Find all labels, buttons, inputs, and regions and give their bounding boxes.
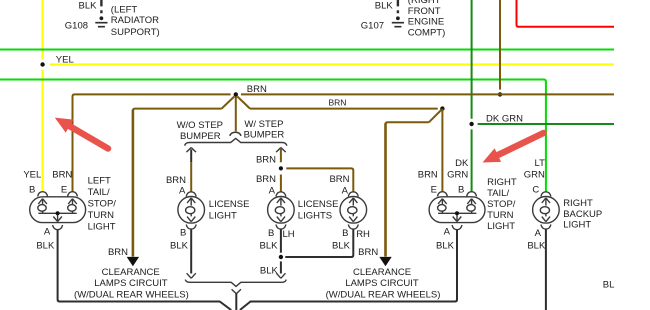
lamp license light 1: [178, 192, 205, 229]
svg-text:B: B: [268, 228, 274, 239]
svg-text:BRN: BRN: [52, 169, 72, 180]
svg-text:A: A: [269, 185, 276, 196]
label LEFT TAIL/STOP/TURN LIGHT: [88, 176, 117, 233]
svg-text:GRN: GRN: [447, 169, 468, 180]
svg-text:STOP/: STOP/: [487, 199, 516, 210]
svg-text:B: B: [458, 184, 464, 195]
svg-text:YEL: YEL: [23, 169, 41, 180]
lamp right backup light: [533, 192, 560, 229]
svg-text:CLEARANCE: CLEARANCE: [102, 267, 160, 278]
svg-text:BLK: BLK: [260, 240, 279, 251]
svg-text:LICENSE: LICENSE: [209, 199, 250, 210]
svg-text:A: A: [44, 226, 51, 237]
svg-text:BRN: BRN: [166, 175, 186, 186]
svg-text:B: B: [180, 227, 186, 238]
svg-text:BRN: BRN: [256, 174, 276, 185]
arrow left clearance: [127, 257, 139, 266]
label (LEFT RADIATOR SUPPORT): [111, 4, 160, 38]
svg-text:B: B: [342, 228, 348, 239]
svg-text:BRN: BRN: [108, 247, 128, 258]
lamp license light RH: [340, 192, 367, 229]
node YEL junction: [40, 62, 44, 66]
wire BLK backup down: [545, 229, 547, 310]
svg-text:TAIL/: TAIL/: [487, 188, 509, 199]
wire YEL horizontal: [50, 63, 614, 65]
connector arrow down (license 1): [187, 273, 196, 278]
svg-text:LAMPS CIRCUIT: LAMPS CIRCUIT: [345, 278, 419, 289]
svg-text:LEFT: LEFT: [88, 176, 111, 187]
wire BLK LH license down: [280, 229, 282, 253]
wire GRN horizontal upper: [0, 49, 614, 51]
node DK GRN junction: [469, 122, 473, 126]
wire merge down: [235, 293, 237, 310]
label CLEARANCE LAMPS CIRCUIT (right): [326, 267, 441, 301]
wire fan vertical drop: [235, 96, 237, 131]
svg-text:FRONT: FRONT: [408, 6, 441, 17]
wire BRN main bus (left tail E pin up and across): [73, 94, 615, 192]
label (RIGHT FRONT ENGINE COMPT): [408, 0, 445, 38]
svg-text:(W/DUAL REAR WHEELS): (W/DUAL REAR WHEELS): [74, 289, 189, 300]
svg-text:ENGINE: ENGINE: [408, 17, 444, 28]
svg-text:BLK: BLK: [436, 240, 455, 251]
lamp right tail/stop/turn: [429, 192, 485, 230]
svg-text:LT: LT: [535, 158, 546, 169]
wire BRN right tail E feed: [441, 109, 443, 193]
wire BRN vertical from top: [499, 0, 501, 90]
svg-text:BLK: BLK: [36, 240, 55, 251]
annotation red arrow 1: [55, 118, 108, 149]
node BLK license junction: [279, 255, 283, 259]
svg-text:BLK: BLK: [170, 240, 189, 251]
svg-text:GRN: GRN: [524, 169, 545, 180]
wire BRN to LH license: [280, 175, 282, 193]
node left tail filament junction: [56, 211, 60, 215]
wire DK GRN horizontal: [478, 123, 614, 125]
svg-text:BLK: BLK: [527, 240, 546, 251]
svg-text:A: A: [342, 185, 349, 196]
symbol merge underbrace: [185, 280, 286, 287]
wire RED corner top right: [517, 0, 615, 27]
svg-text:LAMPS CIRCUIT: LAMPS CIRCUIT: [94, 278, 168, 289]
wire fan diagonal left: [222, 96, 235, 108]
wire fan diagonal right: [237, 96, 250, 108]
label CLEARANCE LAMPS CIRCUIT (left): [74, 267, 189, 301]
svg-text:YEL: YEL: [56, 54, 74, 65]
svg-text:DK: DK: [455, 158, 469, 169]
svg-text:BRN: BRN: [418, 169, 438, 180]
svg-text:LIGHT: LIGHT: [88, 221, 116, 232]
annotation red arrow 2: [483, 133, 544, 163]
wire YEL vertical (left tail B feed): [41, 0, 43, 192]
label LICENSE LIGHT: [209, 199, 250, 221]
wire BRN left clearance feeder: [132, 110, 135, 257]
lamp license light LH: [268, 192, 295, 229]
label W/O STEP BUMPER: [177, 120, 223, 142]
svg-text:BLK: BLK: [375, 0, 394, 11]
svg-text:BUMPER: BUMPER: [244, 130, 285, 141]
wire BRN right clearance feeder: [384, 123, 387, 256]
connector arrow (W/ branch): [276, 148, 286, 153]
arrow right clearance: [379, 257, 391, 266]
wire BLK RH license down and across: [285, 229, 353, 257]
wire BLK upper segment (W/O branch): [190, 149, 192, 162]
svg-text:TURN: TURN: [487, 210, 514, 221]
connector arrow (W/O branch): [186, 148, 196, 153]
svg-text:LIGHT: LIGHT: [487, 221, 515, 232]
wire BRN second bus right segment: [250, 108, 438, 110]
wire BRN to license light 1: [190, 162, 192, 192]
svg-text:BLK: BLK: [332, 240, 351, 251]
wire BRN second bus left segment: [133, 109, 222, 111]
wire BRN branch to RH license: [286, 168, 353, 192]
wire BLK right tail to merge: [240, 230, 457, 310]
svg-text:RH: RH: [356, 229, 370, 240]
connector arrow down (LH/RH license): [276, 273, 285, 278]
svg-text:BRN: BRN: [329, 174, 349, 185]
svg-text:LIGHT: LIGHT: [563, 219, 591, 230]
svg-text:CLEARANCE: CLEARANCE: [353, 267, 411, 278]
svg-text:BACKUP: BACKUP: [563, 209, 602, 220]
label DK GRN (right tail B): [447, 158, 469, 181]
label LT GRN (backup C): [524, 158, 545, 181]
lamp left tail/stop/turn: [30, 192, 86, 230]
node right tail filament junction: [455, 211, 459, 215]
label RIGHT TAIL/STOP/TURN LIGHT: [487, 177, 517, 232]
svg-text:BRN: BRN: [329, 98, 347, 108]
connector Y: [232, 289, 241, 294]
svg-text:SUPPORT): SUPPORT): [111, 27, 160, 38]
svg-text:TURN: TURN: [88, 210, 115, 221]
svg-text:G108: G108: [65, 20, 88, 31]
svg-text:BL: BL: [603, 280, 615, 291]
svg-text:BLK: BLK: [260, 266, 279, 277]
wire BRN right clearance branch: [386, 110, 442, 124]
svg-text:BRN: BRN: [256, 154, 276, 165]
svg-text:G107: G107: [361, 20, 384, 31]
label LICENSE LIGHTS: [298, 199, 339, 221]
svg-text:E: E: [431, 184, 437, 195]
svg-text:LH: LH: [283, 229, 295, 240]
wire G108 BLK dashed lead: [100, 0, 102, 13]
svg-text:BRN: BRN: [247, 84, 267, 95]
svg-text:A: A: [535, 228, 542, 239]
node BRN license junction: [279, 166, 283, 170]
wire LT GRN horizontal + vertical to backup light: [0, 80, 546, 193]
svg-text:LIGHTS: LIGHTS: [298, 210, 332, 221]
node BRN top junction: [498, 92, 502, 96]
svg-text:(LEFT: (LEFT: [111, 4, 138, 15]
svg-text:LIGHT: LIGHT: [209, 210, 237, 221]
node BRN fan junction: [234, 92, 238, 96]
svg-text:E: E: [61, 184, 67, 195]
svg-text:BLK: BLK: [79, 0, 98, 11]
svg-text:A: A: [444, 226, 451, 237]
svg-text:STOP/: STOP/: [88, 199, 117, 210]
ground G107: [392, 16, 404, 26]
wire BRN (W/ branch upper): [280, 149, 282, 163]
svg-text:RIGHT: RIGHT: [563, 198, 593, 209]
svg-text:TAIL/: TAIL/: [88, 187, 110, 198]
svg-text:B: B: [29, 184, 35, 195]
wire BLK left tail to merge: [58, 230, 232, 310]
symbol small option brace: [230, 132, 241, 136]
svg-text:W/O STEP: W/O STEP: [177, 120, 223, 131]
wire BLK junction down: [280, 261, 282, 273]
wire DK GRN vertical (right tail B feed): [471, 0, 473, 192]
svg-text:(W/DUAL REAR WHEELS): (W/DUAL REAR WHEELS): [326, 289, 441, 300]
svg-text:DK GRN: DK GRN: [486, 113, 523, 124]
svg-text:LICENSE: LICENSE: [298, 199, 339, 210]
svg-text:A: A: [179, 185, 186, 196]
label W/ STEP BUMPER: [244, 119, 285, 141]
svg-text:RIGHT: RIGHT: [487, 177, 517, 188]
svg-text:C: C: [532, 184, 539, 195]
svg-text:BRN: BRN: [358, 247, 378, 258]
svg-text:BUMPER: BUMPER: [180, 131, 221, 142]
ground G108: [95, 16, 107, 26]
label RIGHT BACKUP LIGHT: [563, 198, 602, 230]
svg-text:COMPT): COMPT): [408, 27, 445, 38]
node BRN right junction: [440, 106, 444, 110]
wire BLK license 1 down: [190, 229, 192, 273]
svg-text:RADIATOR: RADIATOR: [111, 15, 159, 26]
symbol option split brace: [185, 138, 287, 145]
svg-text:W/ STEP: W/ STEP: [244, 119, 283, 130]
wire G107 BLK dashed lead: [397, 0, 399, 13]
